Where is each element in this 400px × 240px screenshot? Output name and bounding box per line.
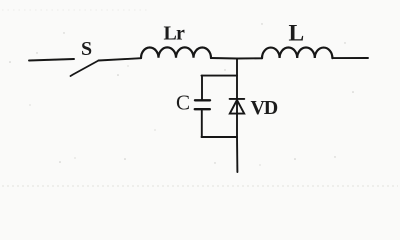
node A (junction Lr / L / C-VD branch)	[237, 57, 262, 59]
wire: capacitor upper lead	[201, 76, 203, 100]
wire: bottom vertical lead	[236, 137, 238, 172]
wire: switch to inductor Lr	[99, 58, 142, 60]
wire: bottom rail of parallel branch	[202, 136, 238, 138]
wire: Lr to node A	[211, 57, 237, 60]
svg-text:C: C	[176, 90, 190, 114]
switch S (blade, open)	[71, 61, 99, 77]
wire: top rail of parallel branch (node A drop to capacitor)	[202, 75, 238, 77]
wire: capacitor lower lead	[201, 110, 203, 137]
capacitor C	[195, 100, 210, 109]
svg-text:VD: VD	[251, 97, 278, 119]
wire: left lead to switch S	[29, 59, 74, 61]
diode VD (cathode bar + triangle, pointing up)	[230, 99, 245, 114]
inductor Lr	[141, 47, 211, 58]
svg-text:S: S	[81, 38, 92, 60]
wire: L to right end	[332, 57, 368, 59]
svg-text:L: L	[289, 21, 305, 47]
paper speckles and scan artifacts (decorative)	[9, 23, 354, 165]
svg-text:Lr: Lr	[164, 23, 186, 45]
wire: vertical drop from node A through diode to bottom rail	[236, 59, 238, 138]
inductor L	[262, 47, 332, 58]
